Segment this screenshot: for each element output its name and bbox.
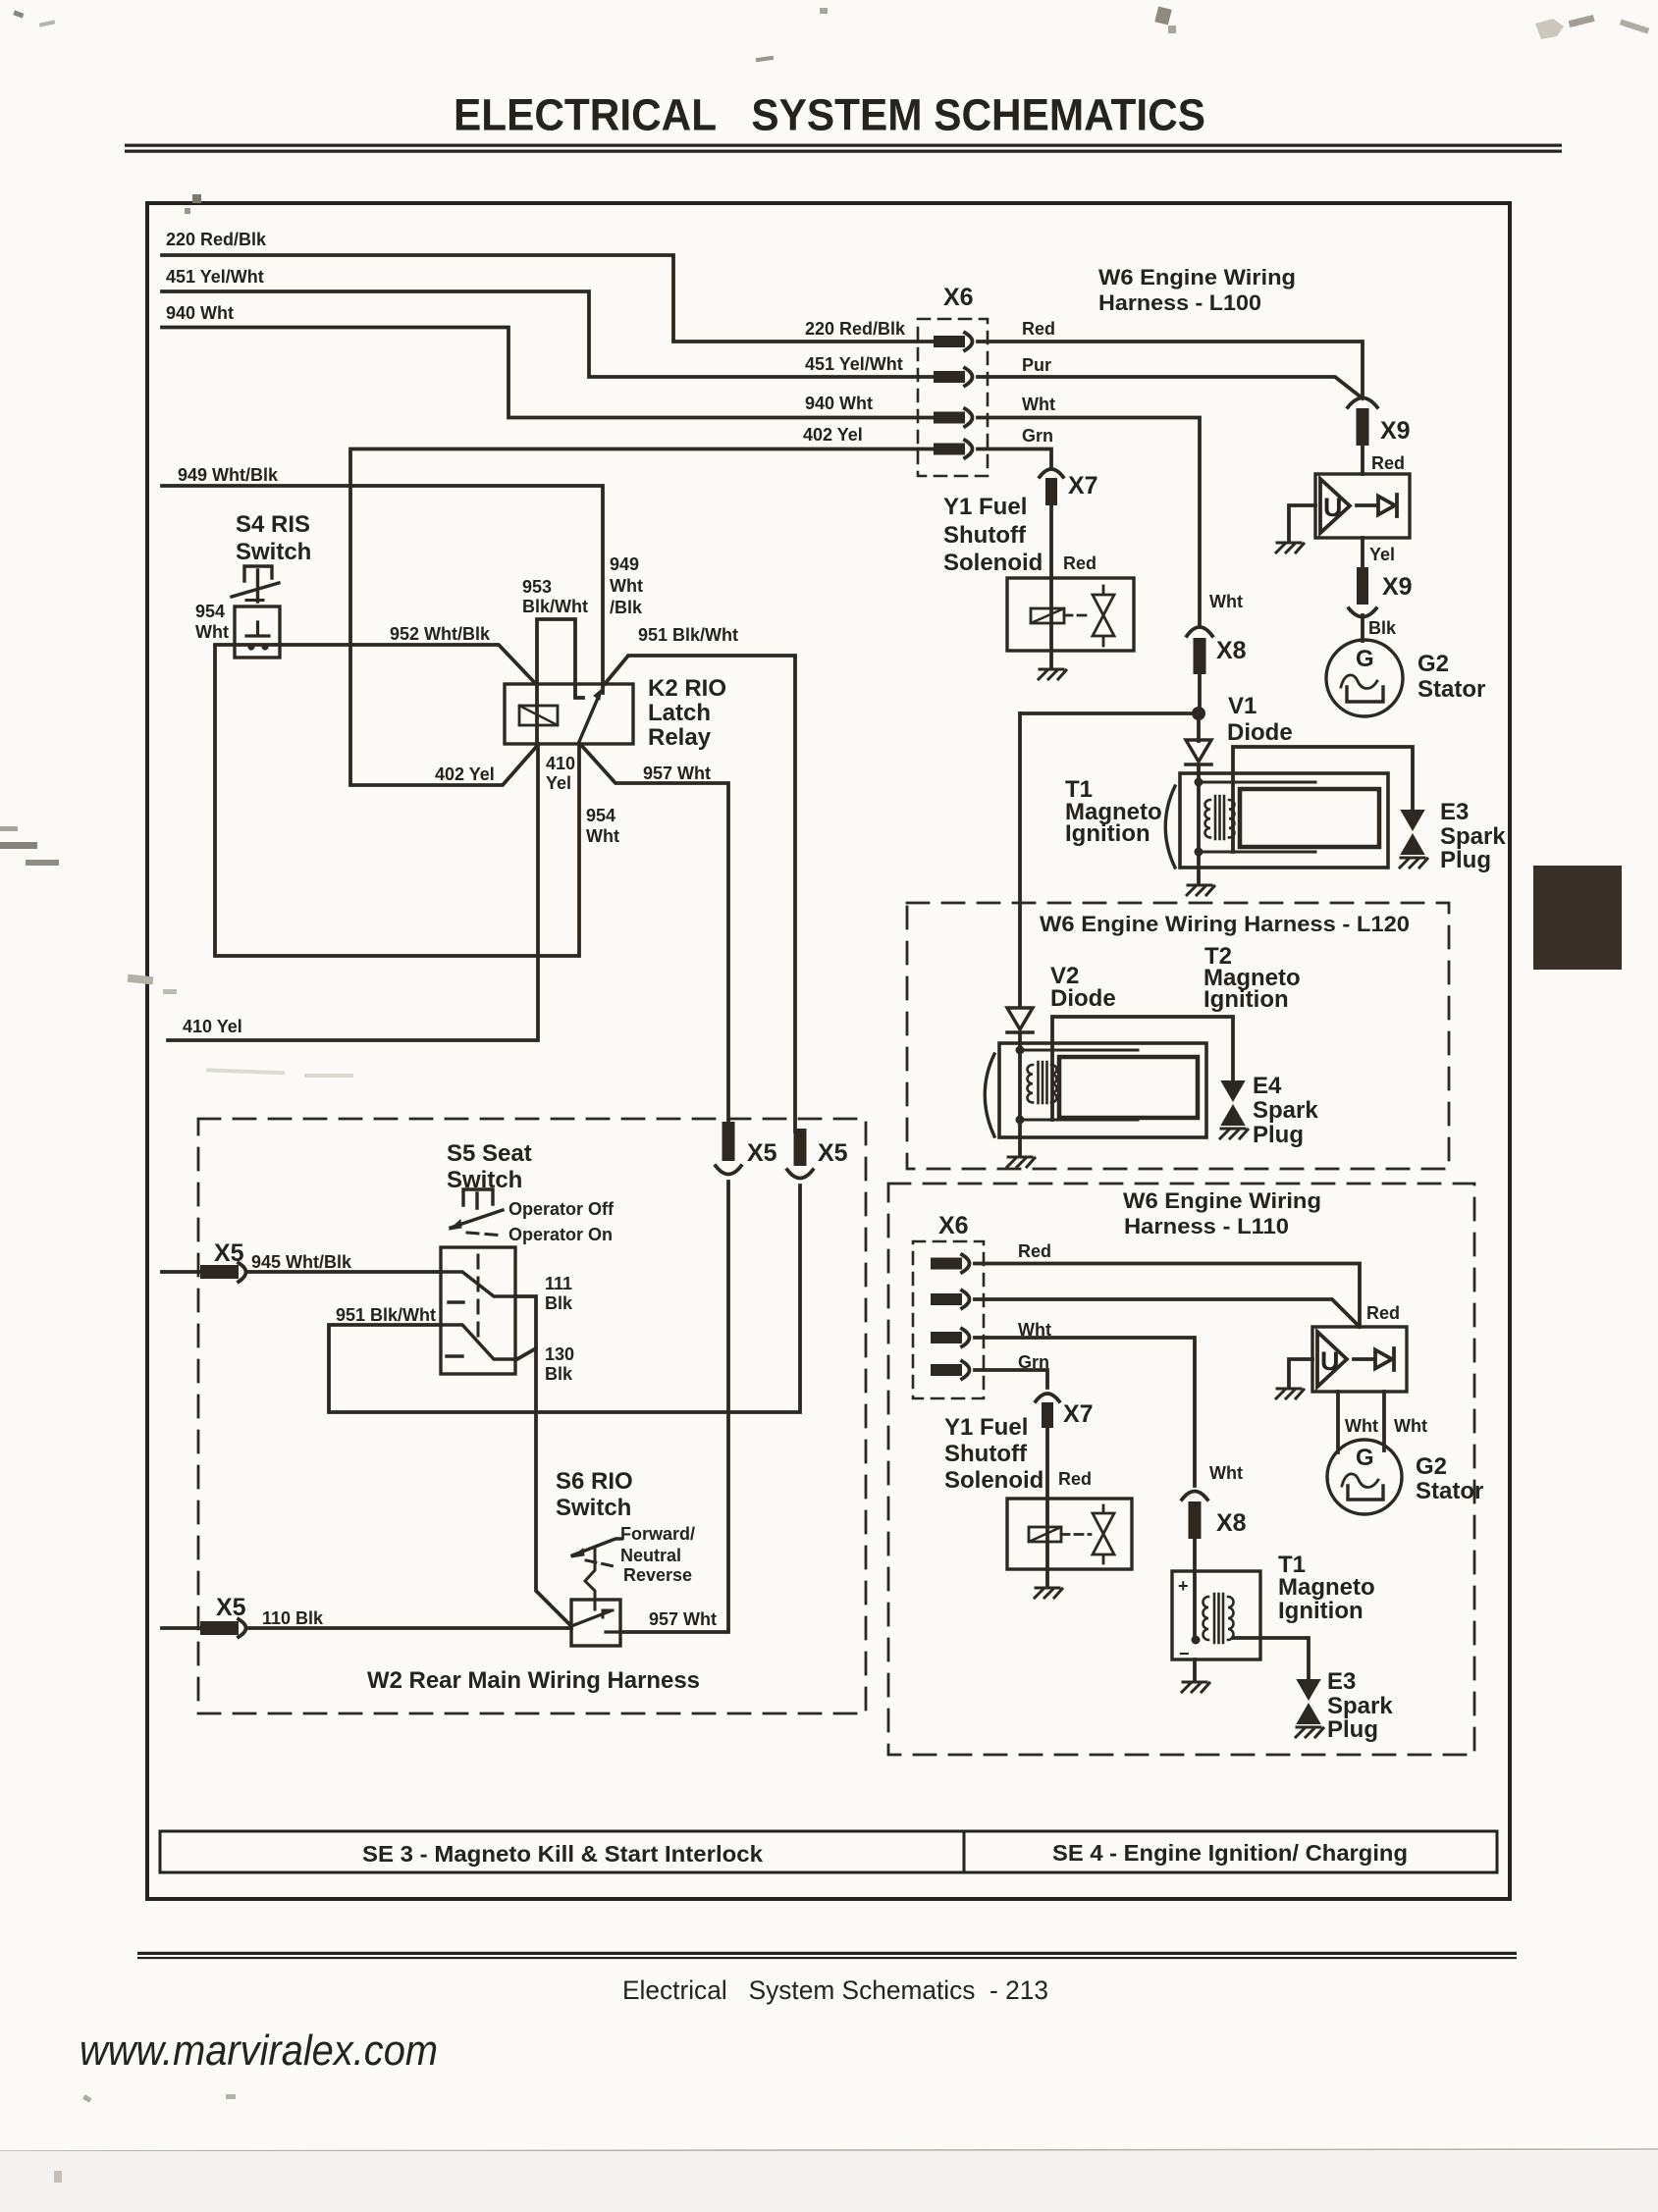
svg-text:Wht: Wht xyxy=(1345,1416,1378,1436)
svg-text:X7: X7 xyxy=(1068,472,1098,500)
svg-text:451 Yel/Wht: 451 Yel/Wht xyxy=(805,354,903,374)
svg-text:451 Yel/Wht: 451 Yel/Wht xyxy=(166,267,264,287)
svg-text:−: − xyxy=(1179,1644,1190,1663)
svg-text:E3: E3 xyxy=(1327,1668,1356,1695)
svg-text:951 Blk/Wht: 951 Blk/Wht xyxy=(638,625,738,645)
svg-text:Plug: Plug xyxy=(1440,847,1491,873)
svg-text:Ignition: Ignition xyxy=(1278,1598,1364,1624)
svg-text:Shutoff: Shutoff xyxy=(944,1441,1028,1467)
svg-text:Ignition: Ignition xyxy=(1203,986,1289,1013)
svg-text:X7: X7 xyxy=(1063,1400,1094,1428)
svg-text:Stator: Stator xyxy=(1416,1478,1483,1504)
svg-text:957 Wht: 957 Wht xyxy=(643,764,711,783)
svg-text:/Blk: /Blk xyxy=(610,598,643,617)
svg-text:W6 Engine Wiring: W6 Engine Wiring xyxy=(1098,265,1296,290)
svg-text:Red: Red xyxy=(1058,1469,1092,1489)
svg-text:Spark: Spark xyxy=(1440,823,1506,850)
svg-text:Yel: Yel xyxy=(1369,545,1395,564)
svg-text:X8: X8 xyxy=(1216,637,1247,664)
svg-text:Harness - L100: Harness - L100 xyxy=(1098,290,1261,315)
svg-text:W6 Engine Wiring Harness - L12: W6 Engine Wiring Harness - L120 xyxy=(1040,912,1410,936)
svg-text:954: 954 xyxy=(195,602,225,621)
svg-text:957 Wht: 957 Wht xyxy=(649,1609,717,1629)
svg-text:ELECTRICAL SYSTEM SCHEMATICS: ELECTRICAL SYSTEM SCHEMATICS xyxy=(454,90,1205,140)
svg-text:Blk: Blk xyxy=(545,1293,573,1313)
svg-text:W6 Engine Wiring: W6 Engine Wiring xyxy=(1123,1188,1321,1213)
svg-text:Latch: Latch xyxy=(648,700,711,726)
svg-text:+: + xyxy=(1178,1576,1189,1596)
svg-text:SE 3 - Magneto Kill & Start In: SE 3 - Magneto Kill & Start Interlock xyxy=(362,1841,763,1867)
svg-text:Wht: Wht xyxy=(610,576,643,596)
svg-text:Wht: Wht xyxy=(1018,1320,1051,1340)
svg-text:Ignition: Ignition xyxy=(1065,820,1150,847)
svg-text:E3: E3 xyxy=(1440,799,1469,825)
svg-text:Reverse: Reverse xyxy=(623,1565,692,1585)
svg-text:Solenoid: Solenoid xyxy=(944,1467,1043,1494)
svg-text:Red: Red xyxy=(1371,453,1405,473)
svg-text:Diode: Diode xyxy=(1050,985,1116,1012)
svg-text:E4: E4 xyxy=(1253,1073,1282,1099)
svg-text:949 Wht/Blk: 949 Wht/Blk xyxy=(178,465,279,485)
svg-text:Diode: Diode xyxy=(1227,719,1293,746)
svg-text:Wht: Wht xyxy=(1022,395,1055,414)
svg-text:Switch: Switch xyxy=(556,1495,631,1521)
svg-text:954: 954 xyxy=(586,806,615,825)
svg-text:Relay: Relay xyxy=(648,724,712,751)
svg-text:G2: G2 xyxy=(1417,651,1449,677)
svg-text:949: 949 xyxy=(610,554,639,574)
svg-text:S4 RIS: S4 RIS xyxy=(236,511,310,538)
svg-text:953: 953 xyxy=(522,577,552,597)
svg-text:Red: Red xyxy=(1022,319,1055,339)
svg-text:Blk: Blk xyxy=(1368,618,1397,638)
svg-text:945 Wht/Blk: 945 Wht/Blk xyxy=(251,1252,352,1272)
svg-text:Yel: Yel xyxy=(546,773,571,793)
svg-text:Spark: Spark xyxy=(1253,1097,1318,1124)
svg-text:G: G xyxy=(1356,1445,1374,1471)
svg-text:Magneto: Magneto xyxy=(1278,1574,1375,1601)
svg-text:Solenoid: Solenoid xyxy=(943,550,1043,576)
svg-text:S5 Seat: S5 Seat xyxy=(447,1140,532,1167)
svg-text:Plug: Plug xyxy=(1253,1122,1304,1148)
svg-text:940 Wht: 940 Wht xyxy=(805,394,873,413)
svg-text:130: 130 xyxy=(545,1344,574,1364)
svg-text:Electrical System Schematics: Electrical System Schematics - 213 xyxy=(622,1975,1048,2005)
svg-text:Operator On: Operator On xyxy=(508,1225,613,1244)
svg-text:X5: X5 xyxy=(216,1594,246,1621)
svg-text:Blk/Wht: Blk/Wht xyxy=(522,597,588,616)
svg-text:V1: V1 xyxy=(1228,693,1257,719)
svg-text:Red: Red xyxy=(1063,553,1096,573)
svg-text:Red: Red xyxy=(1018,1241,1051,1261)
svg-text:SE 4 - Engine Ignition/ Chargi: SE 4 - Engine Ignition/ Charging xyxy=(1052,1840,1408,1866)
svg-text:Spark: Spark xyxy=(1327,1693,1393,1719)
svg-text:Wht: Wht xyxy=(195,622,229,642)
svg-text:X9: X9 xyxy=(1380,417,1411,445)
svg-text:Stator: Stator xyxy=(1417,676,1485,703)
svg-text:410 Yel: 410 Yel xyxy=(183,1017,242,1036)
svg-text:410: 410 xyxy=(546,754,575,773)
svg-text:www.marviralex.com: www.marviralex.com xyxy=(80,2027,438,2075)
svg-text:X9: X9 xyxy=(1382,573,1413,601)
svg-text:Wht: Wht xyxy=(1394,1416,1427,1436)
svg-text:Pur: Pur xyxy=(1022,355,1051,375)
svg-text:U: U xyxy=(1320,1346,1340,1376)
svg-text:951 Blk/Wht: 951 Blk/Wht xyxy=(336,1305,436,1325)
svg-text:X6: X6 xyxy=(943,284,974,311)
svg-text:W2 Rear Main Wiring Harness: W2 Rear Main Wiring Harness xyxy=(367,1667,700,1694)
svg-text:Shutoff: Shutoff xyxy=(943,522,1027,549)
svg-text:220 Red/Blk: 220 Red/Blk xyxy=(166,230,267,249)
svg-text:402 Yel: 402 Yel xyxy=(435,764,495,784)
svg-text:940 Wht: 940 Wht xyxy=(166,303,234,323)
svg-text:Blk: Blk xyxy=(545,1364,573,1384)
svg-text:Switch: Switch xyxy=(447,1167,522,1193)
svg-text:Wht: Wht xyxy=(586,826,619,846)
svg-text:Neutral: Neutral xyxy=(620,1546,681,1565)
svg-text:Harness - L110: Harness - L110 xyxy=(1124,1214,1289,1238)
svg-text:G2: G2 xyxy=(1416,1453,1447,1480)
svg-text:Y1 Fuel: Y1 Fuel xyxy=(943,494,1027,520)
svg-text:Grn: Grn xyxy=(1018,1352,1049,1372)
svg-text:Operator Off: Operator Off xyxy=(508,1199,615,1219)
svg-text:Wht: Wht xyxy=(1209,592,1243,611)
svg-text:X5: X5 xyxy=(214,1239,244,1267)
svg-text:S6 RIO: S6 RIO xyxy=(556,1468,633,1495)
svg-text:Plug: Plug xyxy=(1327,1716,1378,1743)
svg-text:K2 RIO: K2 RIO xyxy=(648,675,726,702)
svg-text:952 Wht/Blk: 952 Wht/Blk xyxy=(390,624,491,644)
svg-text:G: G xyxy=(1356,646,1374,672)
svg-text:Red: Red xyxy=(1366,1303,1400,1323)
svg-text:X5: X5 xyxy=(818,1139,848,1167)
svg-text:Forward/: Forward/ xyxy=(620,1524,695,1544)
svg-text:110 Blk: 110 Blk xyxy=(262,1608,324,1628)
svg-text:Grn: Grn xyxy=(1022,426,1053,446)
svg-text:Wht: Wht xyxy=(1209,1463,1243,1483)
svg-text:111: 111 xyxy=(545,1274,572,1293)
svg-text:X5: X5 xyxy=(747,1139,777,1167)
svg-text:220 Red/Blk: 220 Red/Blk xyxy=(805,319,906,339)
svg-text:U: U xyxy=(1323,493,1343,522)
svg-text:Y1 Fuel: Y1 Fuel xyxy=(944,1414,1028,1441)
svg-text:Switch: Switch xyxy=(236,539,311,565)
svg-text:402 Yel: 402 Yel xyxy=(803,425,863,445)
svg-text:X8: X8 xyxy=(1216,1509,1247,1537)
svg-text:X6: X6 xyxy=(938,1212,969,1239)
